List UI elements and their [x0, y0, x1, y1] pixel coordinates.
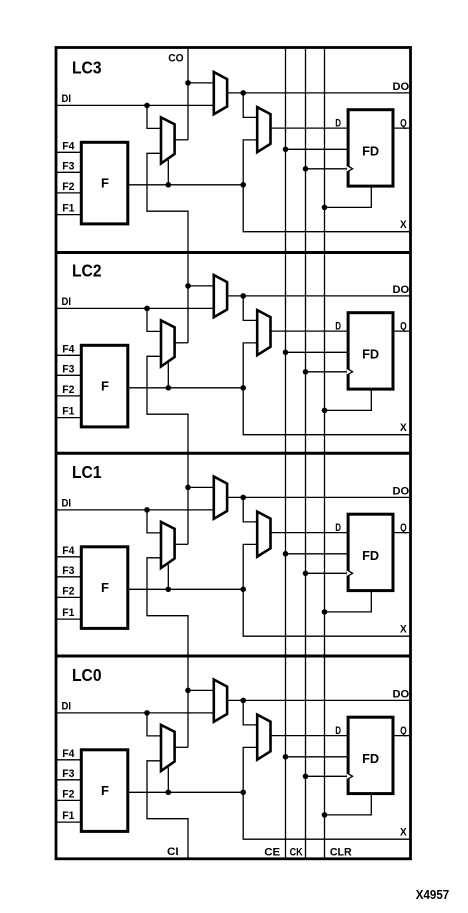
node F output junction 2 (LC3) — [240, 182, 246, 188]
pin D label (LC0) — [335, 725, 341, 737]
svg-text:CK: CK — [290, 847, 303, 859]
section divider 1 — [56, 251, 411, 254]
net CE vertical bus line — [285, 48, 287, 859]
svg-text:X4957: X4957 — [416, 887, 449, 902]
pin F1 label (LC0) — [62, 810, 74, 822]
wire DI to carry mux top input (LC3) — [147, 105, 161, 128]
pin F3 label (LC3) — [62, 160, 74, 172]
pin F3 label (LC0) — [62, 768, 74, 780]
mux DI/carry (LC1) — [214, 477, 227, 519]
wire D input to flip-flop (LC0) — [271, 735, 347, 737]
node CK junction (LC1) — [303, 571, 309, 577]
wire carry-out vertical (LC1) — [187, 453, 189, 544]
mux carry (LC2) — [161, 320, 175, 366]
pin F4 stub (LC3) — [56, 151, 81, 153]
wire carry to DI mux top input (LC1) — [188, 486, 214, 488]
wire DI to carry mux top input (LC1) — [147, 510, 161, 533]
svg-text:DO: DO — [393, 284, 410, 296]
svg-text:F: F — [101, 176, 109, 191]
node CLR junction (LC1) — [322, 609, 328, 615]
pin F1 stub (LC0) — [56, 821, 81, 823]
section label LC2 — [72, 261, 102, 281]
mux DI/carry (LC0) — [214, 680, 227, 722]
svg-text:DO: DO — [393, 485, 410, 497]
node F output junction 2 (LC0) — [240, 790, 246, 796]
wire carry mux output (LC0) — [175, 746, 188, 748]
wire X output (LC1) — [243, 589, 410, 636]
svg-text:D: D — [335, 522, 341, 534]
pin F3 stub (LC1) — [56, 576, 81, 578]
wire DO output (LC1) — [227, 496, 410, 498]
net DI label (LC0) — [62, 701, 72, 713]
pin F4 label (LC2) — [62, 343, 74, 355]
node F output junction 1 (LC3) — [166, 182, 172, 188]
svg-text:F4: F4 — [62, 748, 74, 760]
svg-text:DO: DO — [393, 81, 410, 93]
svg-text:CLR: CLR — [330, 847, 352, 859]
svg-text:DI: DI — [62, 93, 72, 105]
node F output junction 2 (LC1) — [240, 587, 246, 593]
pin D label (LC3) — [335, 118, 341, 130]
wire DO output (LC2) — [227, 295, 410, 297]
wire F to output mux bottom input (LC2) — [243, 343, 257, 388]
node F output junction 1 (LC2) — [166, 385, 172, 391]
pin F4 label (LC1) — [62, 545, 74, 557]
net DI label (LC2) — [62, 296, 72, 308]
wire DI input (LC1) — [56, 509, 214, 511]
svg-text:X: X — [400, 826, 407, 838]
node DI junction (LC0) — [144, 710, 150, 716]
wire CLR to flip-flop (LC1) — [325, 591, 372, 612]
wire DO to output mux top input (LC0) — [243, 700, 257, 725]
svg-text:CE: CE — [264, 847, 280, 859]
pin D label (LC2) — [335, 321, 341, 333]
clock input triangle (LC0) — [347, 773, 353, 780]
svg-text:X: X — [400, 623, 407, 635]
svg-text:F2: F2 — [62, 789, 74, 801]
wire X output (LC0) — [243, 792, 410, 839]
svg-text:D: D — [335, 118, 341, 130]
wire carry-out vertical (LC3) — [187, 48, 189, 140]
svg-text:Q: Q — [400, 118, 407, 130]
svg-text:FD: FD — [362, 144, 379, 159]
net X label (LC3) — [400, 219, 407, 231]
wire F output (LC2) — [129, 387, 244, 389]
pin F3 stub (LC3) — [56, 171, 81, 173]
pin F3 label (LC2) — [62, 363, 74, 375]
node DO junction (LC1) — [240, 495, 246, 501]
flip-flop FD (LC0) — [348, 717, 393, 793]
function generator F (LC2) — [81, 345, 128, 427]
wire Q output (LC0) — [393, 735, 411, 737]
pin F1 label (LC2) — [62, 406, 74, 418]
wire D input to flip-flop (LC2) — [271, 330, 347, 332]
net DI label (LC3) — [62, 93, 72, 105]
svg-text:F4: F4 — [62, 343, 74, 355]
svg-text:F2: F2 — [62, 181, 74, 193]
pin F2 label (LC3) — [62, 181, 74, 193]
node carry junction (LC1) — [185, 485, 191, 491]
pin F2 stub (LC3) — [56, 192, 81, 194]
wire carry mux select (LC0) — [167, 768, 169, 793]
svg-text:Q: Q — [400, 725, 407, 737]
section label LC1 — [72, 462, 102, 482]
pin F2 stub (LC0) — [56, 799, 81, 801]
node carry junction (LC3) — [185, 80, 191, 86]
mux carry (LC3) — [161, 117, 175, 163]
pin F1 label (LC1) — [62, 607, 74, 619]
pin F4 stub (LC1) — [56, 556, 81, 558]
net CO label — [168, 52, 183, 64]
svg-text:D: D — [335, 321, 341, 333]
section divider 3 — [56, 655, 411, 658]
mux output-select (LC1) — [257, 512, 270, 557]
svg-text:F1: F1 — [62, 203, 74, 215]
svg-text:FD: FD — [362, 751, 379, 766]
svg-text:D: D — [335, 725, 341, 737]
flip-flop FD (LC2) — [348, 313, 393, 389]
node DI junction (LC2) — [144, 306, 150, 312]
node DO junction (LC0) — [240, 698, 246, 704]
pin F3 stub (LC0) — [56, 779, 81, 781]
wire CLR to flip-flop (LC0) — [325, 794, 372, 815]
node CE junction (LC0) — [283, 754, 289, 760]
function generator F (LC1) — [81, 547, 128, 629]
wire DI input (LC3) — [56, 104, 214, 106]
net X label (LC2) — [400, 422, 407, 434]
node carry junction (LC0) — [185, 688, 191, 694]
node CLR junction (LC2) — [322, 408, 328, 414]
wire CLR to flip-flop (LC3) — [325, 186, 372, 207]
clock input triangle (LC3) — [347, 165, 353, 172]
pin Q label (LC3) — [400, 118, 407, 130]
svg-text:F1: F1 — [62, 406, 74, 418]
flip-flop FD (LC3) — [348, 110, 393, 186]
wire carry-in jog (LC0) — [147, 761, 188, 859]
net CI label — [167, 846, 179, 858]
pin F3 stub (LC2) — [56, 374, 81, 376]
wire carry mux select (LC3) — [167, 160, 169, 185]
svg-text:X: X — [400, 422, 407, 434]
svg-text:X: X — [400, 219, 407, 231]
pin Q label (LC0) — [400, 725, 407, 737]
wire CE to flip-flop (LC2) — [286, 351, 347, 353]
node CE junction (LC3) — [283, 147, 289, 153]
wire carry to DI mux top input (LC0) — [188, 689, 214, 691]
function generator F (LC0) — [81, 750, 128, 832]
wire F to output mux bottom input (LC3) — [243, 140, 257, 185]
svg-text:F: F — [101, 783, 109, 798]
wire carry to DI mux top input (LC2) — [188, 285, 214, 287]
net X label (LC0) — [400, 826, 407, 838]
wire carry mux output (LC1) — [175, 543, 188, 545]
wire carry to DI mux top input (LC3) — [188, 82, 214, 84]
net DI label (LC1) — [62, 498, 72, 510]
net X label (LC1) — [400, 623, 407, 635]
svg-text:F4: F4 — [62, 140, 74, 152]
svg-text:FD: FD — [362, 347, 379, 362]
wire X output (LC3) — [243, 185, 410, 232]
net CLR vertical bus line — [324, 48, 326, 859]
svg-text:F3: F3 — [62, 768, 74, 780]
wire F to output mux bottom input (LC0) — [243, 747, 257, 792]
pin F1 label (LC3) — [62, 203, 74, 215]
pin F2 label (LC2) — [62, 384, 74, 396]
wire carry mux select (LC2) — [167, 363, 169, 388]
svg-text:F3: F3 — [62, 160, 74, 172]
mux carry (LC0) — [161, 725, 175, 771]
wire DO to output mux top input (LC2) — [243, 296, 257, 321]
outer border frame — [56, 48, 411, 859]
svg-text:Q: Q — [400, 321, 407, 333]
wire carry-out vertical (LC2) — [187, 253, 189, 343]
wire DI to carry mux top input (LC0) — [147, 713, 161, 736]
node carry junction (LC2) — [185, 283, 191, 289]
wire carry mux select (LC1) — [167, 565, 169, 590]
wire CE to flip-flop (LC1) — [286, 553, 347, 555]
svg-text:F4: F4 — [62, 545, 74, 557]
pin F4 label (LC0) — [62, 748, 74, 760]
svg-text:FD: FD — [362, 548, 379, 563]
node CE junction (LC2) — [283, 350, 289, 356]
wire carry mux output (LC3) — [175, 139, 188, 141]
wire Q output (LC3) — [393, 127, 411, 129]
section label LC0 — [72, 665, 102, 685]
node DO junction (LC3) — [240, 90, 246, 96]
node CLR junction (LC3) — [322, 205, 328, 211]
wire carry-in jog (LC1) — [147, 558, 188, 656]
wire DO to output mux top input (LC3) — [243, 93, 257, 118]
pin F2 label (LC0) — [62, 789, 74, 801]
svg-text:DI: DI — [62, 498, 72, 510]
pin F1 stub (LC1) — [56, 618, 81, 620]
pin F2 stub (LC2) — [56, 395, 81, 397]
net DO label (LC3) — [393, 81, 410, 93]
wire DI input (LC2) — [56, 307, 214, 309]
wire Q output (LC2) — [393, 330, 411, 332]
node DO junction (LC2) — [240, 293, 246, 299]
net CE label — [264, 847, 280, 859]
wire CK to clock input (LC3) — [306, 168, 347, 170]
wire DI input (LC0) — [56, 712, 214, 714]
wire carry-in jog (LC2) — [147, 356, 188, 453]
section divider 2 — [56, 452, 411, 455]
svg-text:LC0: LC0 — [72, 665, 102, 685]
wire F to output mux bottom input (LC1) — [243, 544, 257, 589]
wire D input to flip-flop (LC1) — [271, 532, 347, 534]
wire CE to flip-flop (LC3) — [286, 148, 347, 150]
wire F output (LC0) — [129, 791, 244, 793]
pin F4 label (LC3) — [62, 140, 74, 152]
function generator F (LC3) — [81, 142, 128, 224]
mux DI/carry (LC3) — [214, 72, 227, 114]
svg-text:CO: CO — [168, 52, 183, 64]
mux output-select (LC2) — [257, 310, 270, 355]
svg-text:LC3: LC3 — [72, 58, 102, 78]
figure number X4957 — [416, 887, 449, 902]
node F output junction 2 (LC2) — [240, 385, 246, 391]
wire CE to flip-flop (LC0) — [286, 756, 347, 758]
wire CK to clock input (LC0) — [306, 775, 347, 777]
svg-text:F3: F3 — [62, 565, 74, 577]
svg-text:DI: DI — [62, 296, 72, 308]
wire carry-out vertical (LC0) — [187, 656, 189, 747]
svg-text:F: F — [101, 580, 109, 595]
pin Q label (LC1) — [400, 522, 407, 534]
net CK label — [290, 847, 303, 859]
node CK junction (LC0) — [303, 774, 309, 780]
mux output-select (LC3) — [257, 107, 270, 152]
svg-text:F2: F2 — [62, 586, 74, 598]
net CK vertical bus line — [305, 48, 307, 859]
wire X output (LC2) — [243, 388, 410, 435]
clock input triangle (LC2) — [347, 368, 353, 375]
node CE junction (LC1) — [283, 551, 289, 557]
pin F2 label (LC1) — [62, 586, 74, 598]
mux carry (LC1) — [161, 522, 175, 568]
pin D label (LC1) — [335, 522, 341, 534]
svg-text:F: F — [101, 379, 109, 394]
pin F2 stub (LC1) — [56, 596, 81, 598]
svg-text:DI: DI — [62, 701, 72, 713]
clock input triangle (LC1) — [347, 570, 353, 577]
wire DO output (LC0) — [227, 699, 410, 701]
wire DI to carry mux top input (LC2) — [147, 308, 161, 331]
pin Q label (LC2) — [400, 321, 407, 333]
svg-text:F1: F1 — [62, 810, 74, 822]
wire carry mux output (LC2) — [175, 342, 188, 344]
net DO label (LC0) — [393, 688, 410, 700]
net DO label (LC1) — [393, 485, 410, 497]
mux output-select (LC0) — [257, 715, 270, 760]
wire F output (LC1) — [129, 588, 244, 590]
svg-text:F3: F3 — [62, 363, 74, 375]
node CK junction (LC2) — [303, 369, 309, 375]
flip-flop FD (LC1) — [348, 514, 393, 590]
pin F1 stub (LC3) — [56, 214, 81, 216]
wire CK to clock input (LC2) — [306, 371, 347, 373]
pin F1 stub (LC2) — [56, 417, 81, 419]
node F output junction 1 (LC1) — [166, 587, 172, 593]
pin F4 stub (LC0) — [56, 759, 81, 761]
svg-text:F1: F1 — [62, 607, 74, 619]
svg-text:Q: Q — [400, 522, 407, 534]
wire CLR to flip-flop (LC2) — [325, 389, 372, 410]
wire carry-in jog (LC3) — [147, 153, 188, 252]
node DI junction (LC3) — [144, 103, 150, 109]
svg-text:LC1: LC1 — [72, 462, 102, 482]
wire DO output (LC3) — [227, 92, 410, 94]
net CLR label — [330, 847, 352, 859]
wire CK to clock input (LC1) — [306, 572, 347, 574]
wire D input to flip-flop (LC3) — [271, 127, 347, 129]
svg-text:F2: F2 — [62, 384, 74, 396]
node CLR junction (LC0) — [322, 812, 328, 818]
pin F4 stub (LC2) — [56, 354, 81, 356]
mux DI/carry (LC2) — [214, 275, 227, 317]
wire Q output (LC1) — [393, 532, 411, 534]
section label LC3 — [72, 58, 102, 78]
svg-text:CI: CI — [167, 846, 179, 858]
wire F output (LC3) — [129, 184, 244, 186]
node DI junction (LC1) — [144, 507, 150, 513]
svg-text:DO: DO — [393, 688, 410, 700]
svg-text:LC2: LC2 — [72, 261, 102, 281]
node CK junction (LC3) — [303, 166, 309, 172]
net DO label (LC2) — [393, 284, 410, 296]
node F output junction 1 (LC0) — [166, 790, 172, 796]
pin F3 label (LC1) — [62, 565, 74, 577]
wire DO to output mux top input (LC1) — [243, 497, 257, 522]
